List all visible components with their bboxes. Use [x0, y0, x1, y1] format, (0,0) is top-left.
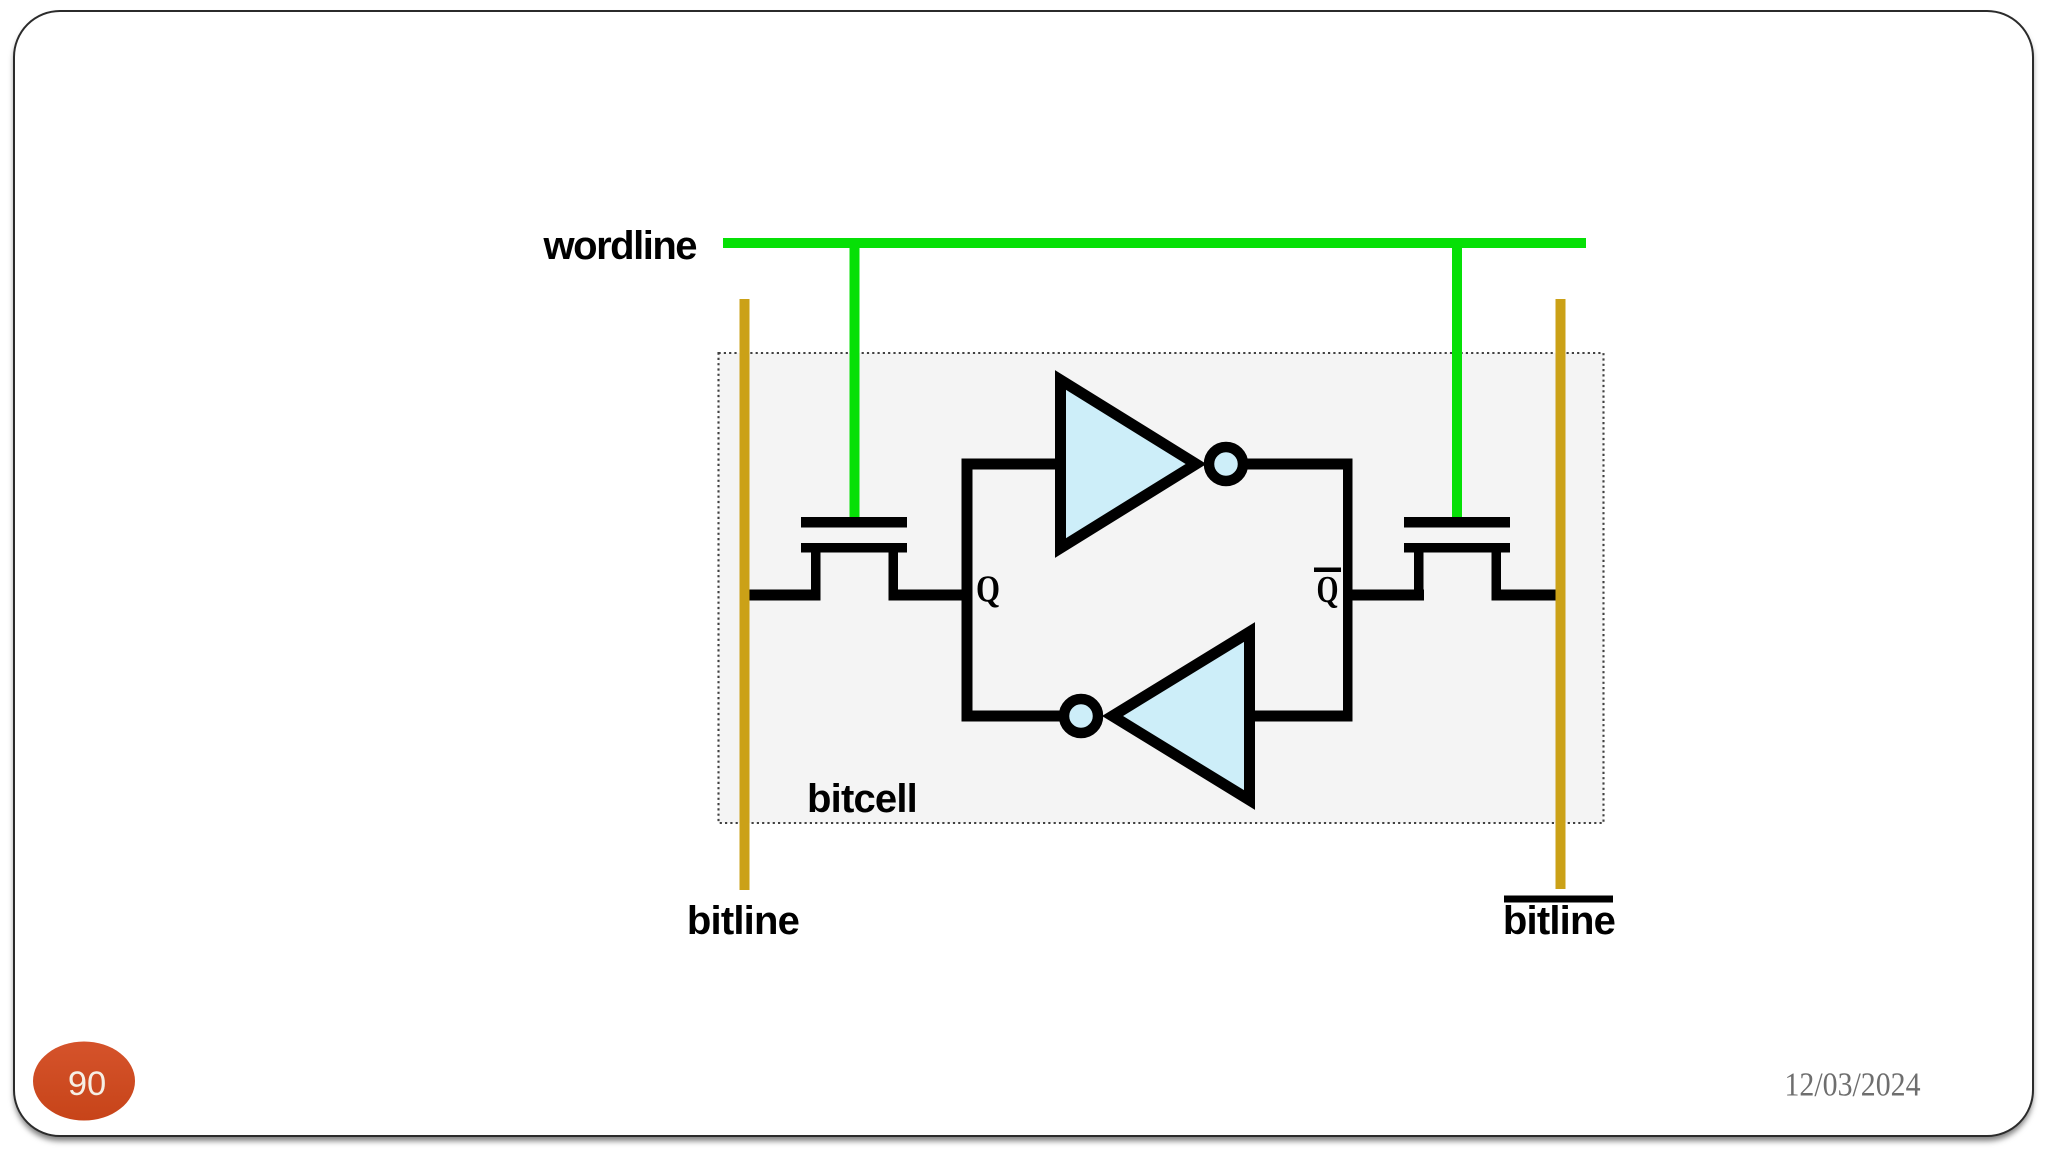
wire: Q to inverter I2 output — [962, 711, 1061, 722]
svg-text:12/03/2024: 12/03/2024 — [1785, 1067, 1921, 1104]
latch node Qbar vertical wire — [1343, 459, 1353, 722]
svg-text:bitcell: bitcell — [807, 777, 917, 821]
wire: bitline to M1 source — [740, 590, 821, 601]
wire: M2 drain to bitline-bar — [1492, 590, 1566, 601]
latch node Q vertical wire — [962, 459, 973, 722]
svg-text:wordline: wordline — [543, 224, 697, 268]
wire: wordline to M2 gate — [1452, 243, 1462, 518]
svg-text:bitline: bitline — [687, 899, 799, 943]
svg-text:90: 90 — [68, 1065, 106, 1103]
inverter I2 — [1113, 632, 1250, 800]
bitline-bar wire (right) — [1556, 299, 1566, 889]
svg-text:Q: Q — [976, 569, 1000, 611]
wordline wire — [723, 238, 1586, 248]
wire: Q to inverter I1 input — [962, 459, 1066, 470]
transistor M2 (right access) — [1404, 517, 1510, 590]
bitcell boundary box — [719, 353, 1604, 823]
page number badge — [33, 1042, 135, 1121]
inverter I1 — [1061, 380, 1197, 548]
bitline wire (left) — [740, 299, 750, 890]
svg-text:bitline: bitline — [1503, 899, 1615, 943]
wire: wordline to M1 gate — [850, 243, 860, 518]
wire: inverter I1 output to Qbar — [1246, 459, 1353, 470]
wire: inverter I2 input to Qbar — [1254, 711, 1353, 722]
inverter I2 bubble — [1064, 699, 1098, 733]
wire: node Qbar to M2 source — [1343, 590, 1424, 601]
wire: M1 drain to node Q — [889, 590, 973, 601]
node Qbar label — [1314, 568, 1341, 612]
bitline-bar label — [1503, 896, 1615, 944]
svg-text:Q: Q — [1317, 569, 1339, 611]
transistor M1 (left access) — [801, 517, 907, 590]
inverter I1 bubble — [1209, 447, 1243, 481]
